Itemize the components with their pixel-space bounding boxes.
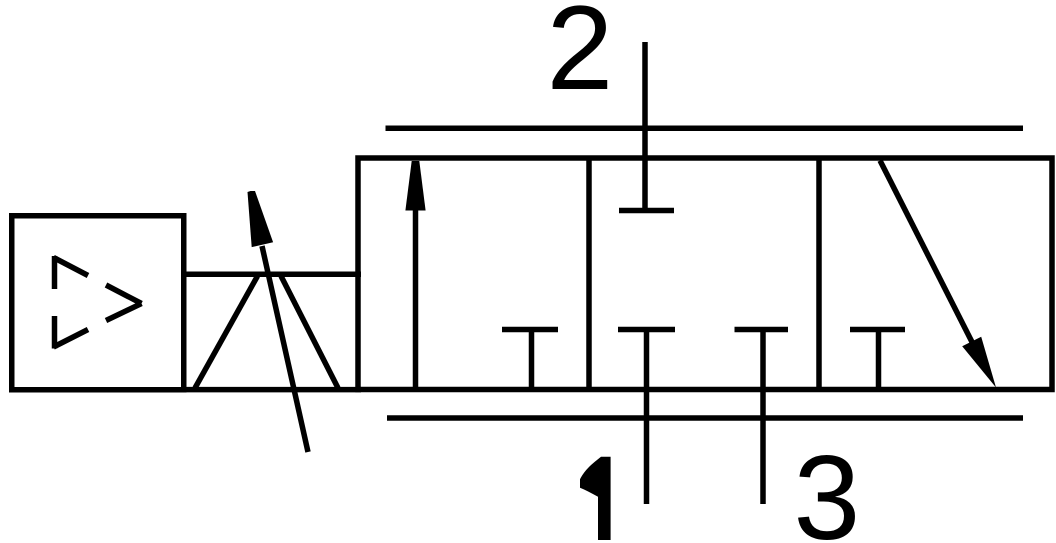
port 3 bar — [735, 327, 789, 333]
port label 2 — [547, 0, 614, 117]
pilot triangle dash: left edge upper — [52, 256, 58, 289]
valve divider 2 — [816, 156, 822, 391]
T port left cell: bar — [502, 327, 558, 333]
adjustment arrow head — [248, 191, 274, 247]
pilot triangle dash: bottom edge second — [106, 304, 142, 321]
up arrow head (left cell) — [405, 161, 425, 211]
T port left cell: stem — [529, 330, 535, 390]
port 1 bar — [618, 327, 675, 333]
throttle right diagonal — [281, 276, 338, 388]
pilot triangle dash: left edge lower — [52, 316, 58, 349]
throttle left diagonal — [195, 276, 258, 388]
up arrow shaft (left cell) — [413, 206, 419, 390]
port 1 line — [644, 330, 650, 505]
port label 3 — [794, 429, 861, 543]
port 2 bar — [619, 208, 674, 214]
bottom rail — [387, 415, 1023, 421]
valve body rectangle — [358, 158, 1052, 390]
T port right cell: stem — [876, 330, 882, 390]
port 2 line — [642, 42, 648, 211]
pilot triangle dash: top edge first — [54, 258, 89, 276]
port 3 line — [760, 330, 766, 505]
top rail — [386, 125, 1024, 131]
pilot box (left square) — [12, 216, 184, 390]
throttle box bottom line — [181, 387, 361, 393]
pilot triangle dash: bottom edge first — [54, 330, 89, 348]
adjustment arrow shaft — [262, 246, 308, 452]
throttle box top line — [181, 271, 361, 277]
pilot triangle dash: top edge second — [106, 285, 142, 304]
T port right cell: bar — [850, 327, 905, 333]
port label 1 — [580, 457, 611, 540]
flow diagonal arrow shaft (right cell) — [880, 161, 972, 343]
flow diagonal arrow head (right cell) — [962, 337, 996, 388]
valve divider 1 — [586, 156, 592, 391]
